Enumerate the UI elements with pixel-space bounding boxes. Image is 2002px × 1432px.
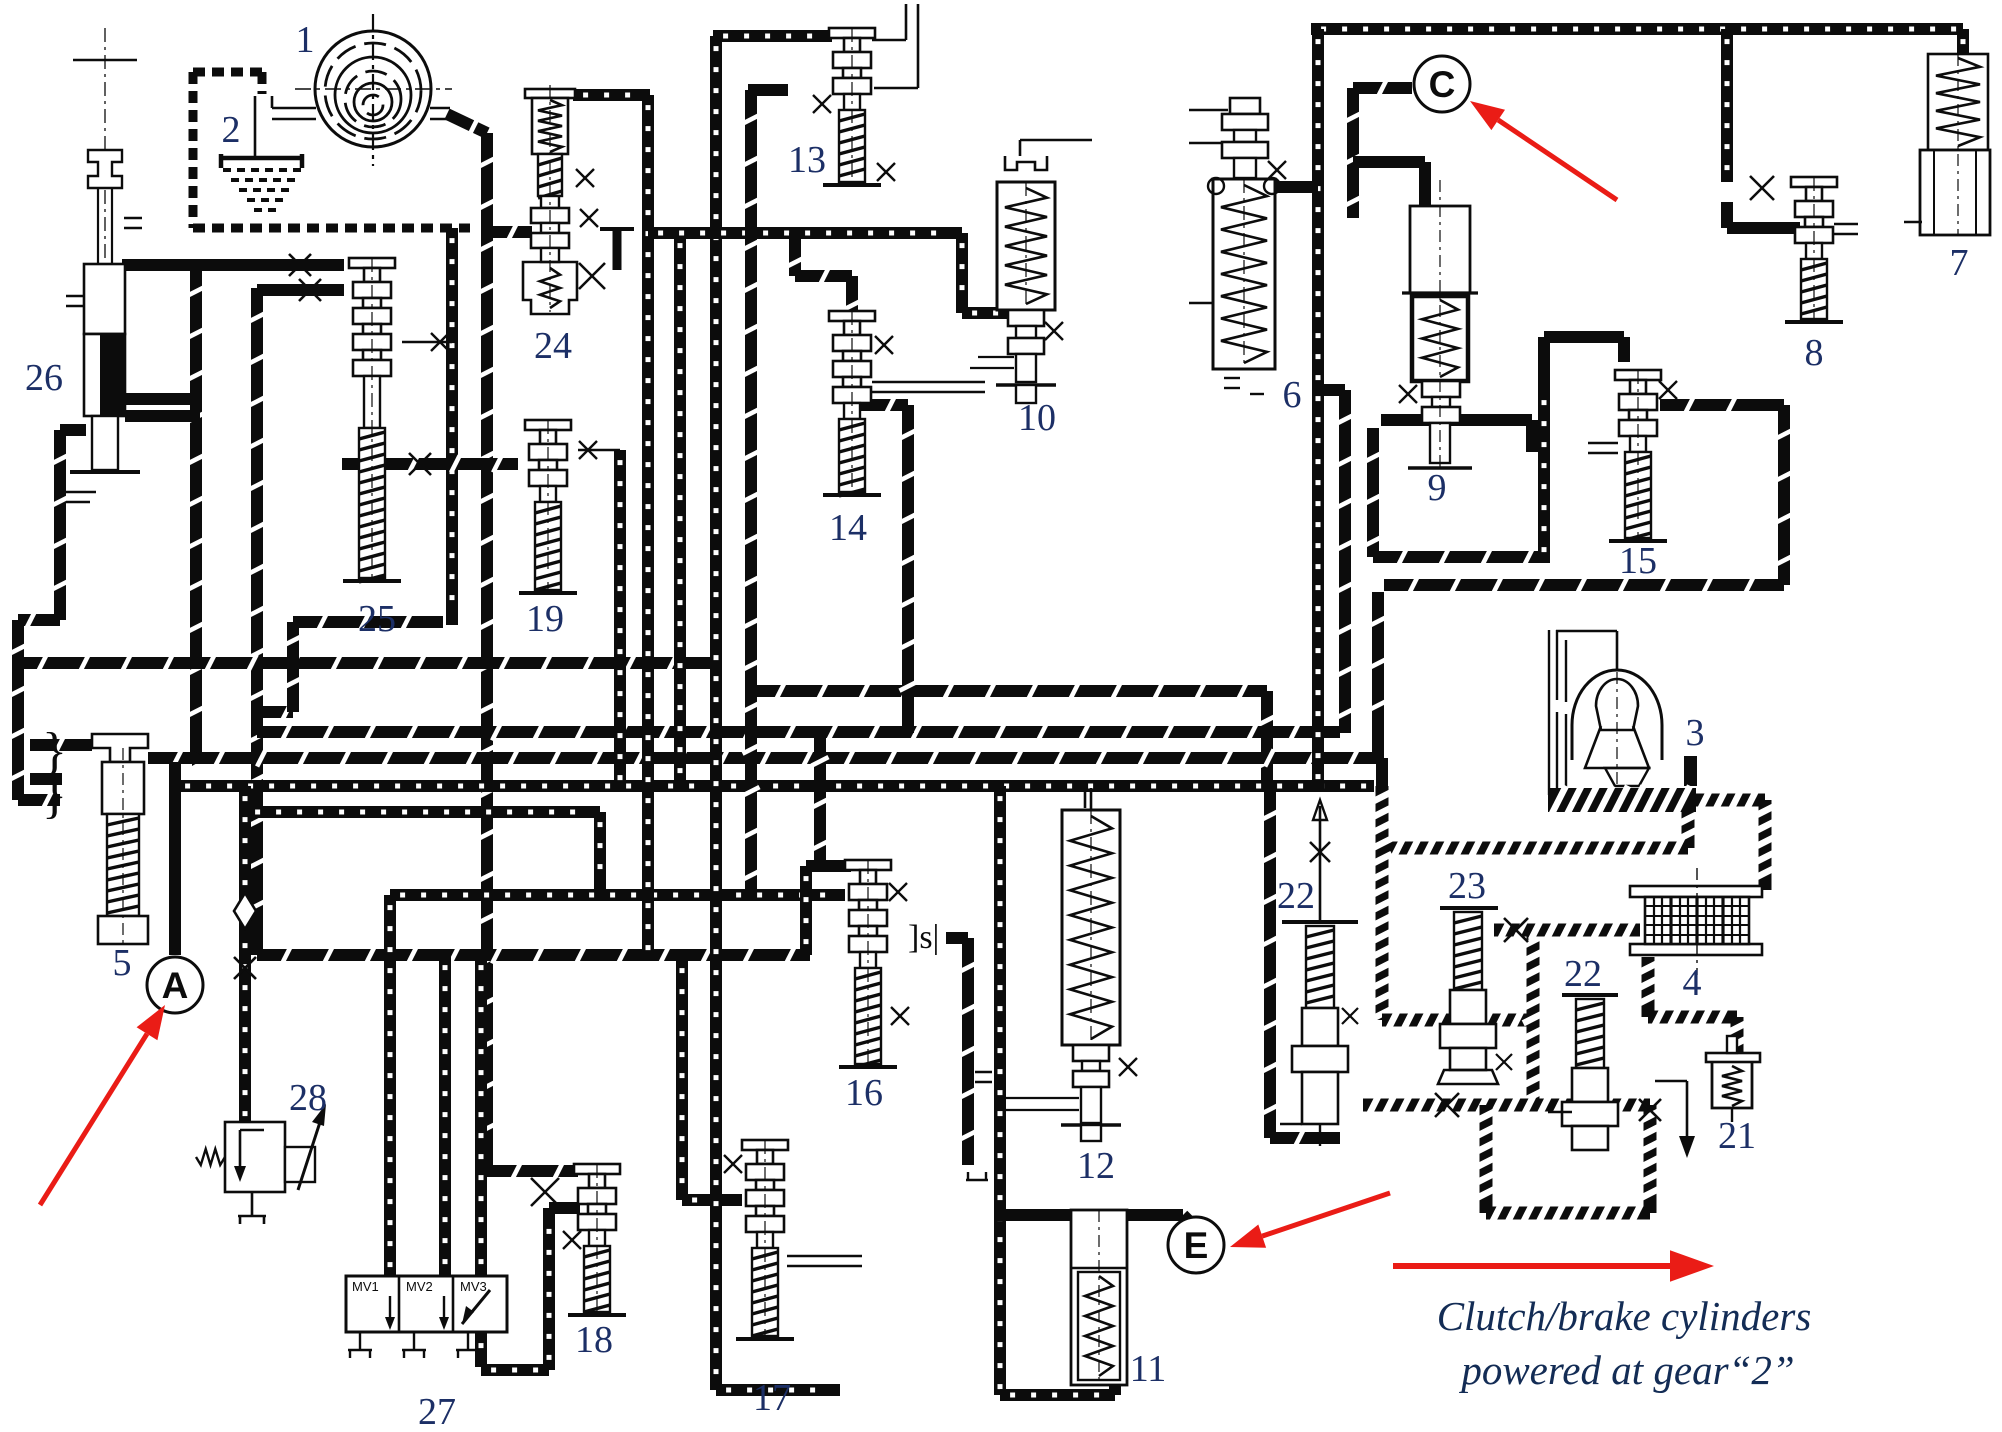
comp 11 <box>1071 1210 1127 1385</box>
wire 15 top feed <box>1538 337 1550 420</box>
svg-text:7: 7 <box>1950 242 1969 284</box>
wire dotted 24 top <box>573 89 650 101</box>
svg-text:21: 21 <box>1718 1115 1756 1157</box>
svg-text:MV3: MV3 <box>460 1279 487 1294</box>
wire 26 to 25 upper <box>122 259 344 271</box>
junction X at 18 <box>531 1178 559 1206</box>
wire trunk L7 dotted <box>245 806 600 818</box>
wire A riser <box>169 762 181 955</box>
wire MV1 feed <box>384 895 396 1276</box>
wire 22a stem <box>1319 806 1322 922</box>
svg-text:powered at gear“2”: powered at gear“2” <box>1458 1347 1794 1393</box>
junction X on 26-25 line <box>289 254 311 276</box>
wire 18 drain rise <box>543 1208 555 1370</box>
wire dotted y895 <box>390 889 845 901</box>
valve 17 side2 <box>787 1265 862 1268</box>
wire 25 to 19 line <box>342 458 518 470</box>
valve 23 <box>1440 906 1498 910</box>
svg-text:17: 17 <box>753 1377 791 1419</box>
wire 15 box bottom <box>1384 579 1784 591</box>
svg-text:19: 19 <box>526 598 564 640</box>
wire zebra x1533 <box>1527 930 1540 1105</box>
wire 8 lower link <box>1721 202 1733 228</box>
valve 8 side <box>1834 223 1858 226</box>
svg-text:14: 14 <box>829 507 867 549</box>
valve 15 <box>1615 370 1661 380</box>
valve 22b <box>1562 993 1618 997</box>
node E <box>1168 1217 1224 1273</box>
valve 18 <box>574 1164 620 1174</box>
node C <box>1414 56 1470 112</box>
wire comp6 to x1311 <box>1276 181 1318 193</box>
motor 3 <box>1549 630 1566 795</box>
valve 17 <box>742 1140 788 1150</box>
wire 14 bottom drop <box>861 399 908 411</box>
wire 26 to 25 lower <box>257 284 344 296</box>
actuator 26 <box>73 59 137 61</box>
wire x1340 drop <box>1318 384 1345 396</box>
wire 11 to E <box>1127 1209 1183 1221</box>
wire trunk L2a <box>13 657 716 669</box>
junction X on 25-19 line <box>409 453 431 475</box>
valve 16 <box>845 860 891 870</box>
wire trunk L3 <box>251 712 263 732</box>
wire pump pressure line <box>447 114 487 133</box>
svg-text:24: 24 <box>534 325 572 367</box>
valve 21 <box>1706 1053 1760 1062</box>
wire 9 top drop <box>1419 162 1431 206</box>
wire 9 box right dotted <box>1538 390 1550 563</box>
wire dotted x245 <box>239 786 251 1122</box>
junction X clutch line <box>1435 1093 1459 1117</box>
wire 25 to x452 <box>402 341 452 344</box>
svg-text:22: 22 <box>1277 875 1315 917</box>
comp 6 line a <box>1189 109 1228 112</box>
wire C stub <box>1353 82 1412 94</box>
wire 16 box right <box>946 932 968 944</box>
wire 15 box top <box>1660 399 1784 411</box>
svg-text:13: 13 <box>788 139 826 181</box>
wire 18 lower port <box>549 1202 580 1214</box>
comp 10 spool <box>1008 310 1044 326</box>
wire C riser <box>1347 88 1359 218</box>
svg-text:26: 26 <box>25 357 63 399</box>
node A <box>147 957 203 1013</box>
wire dotted x1311 <box>1312 29 1324 790</box>
svg-text:MV2: MV2 <box>406 1279 433 1294</box>
wire top dotted rect <box>1311 23 1963 35</box>
wire L4 end drop <box>1376 758 1388 790</box>
wire 13 top feed <box>713 30 832 42</box>
junction X at 8 <box>1750 176 1774 200</box>
wire dotted x445 <box>439 955 451 1276</box>
valve 15 side2 <box>1588 452 1618 455</box>
valve 17 side <box>787 1255 862 1258</box>
svg-text:]s|: ]s| <box>908 919 939 956</box>
comp 6 drain <box>1224 377 1240 379</box>
valve 8 <box>1791 177 1837 187</box>
wire tank stem right <box>271 96 274 108</box>
wire dashed enclosure bottom <box>193 224 470 233</box>
wire tank stem left <box>254 96 257 156</box>
comp 11 drain mark <box>966 1172 988 1180</box>
tank 2 <box>221 154 302 168</box>
comp 7 <box>1928 54 1988 150</box>
valve 28 <box>225 1122 285 1192</box>
svg-text:23: 23 <box>1448 865 1486 907</box>
comp 10 cylinder <box>997 182 1055 310</box>
wire zebra box bottom <box>1486 1207 1650 1220</box>
wire vertical from 26 area <box>251 288 263 955</box>
wire trunk L4 <box>148 752 1382 764</box>
svg-text:2: 2 <box>222 109 241 151</box>
valve 24 <box>525 89 575 98</box>
wire zebra clutch line <box>1363 1099 1650 1112</box>
wire dotted x620 <box>614 450 626 786</box>
junction X 22a stem <box>1310 842 1330 862</box>
red arrow gear2 <box>1393 1263 1670 1269</box>
wire 26 block out a <box>125 393 200 405</box>
wire 22a bottom link <box>1264 786 1276 1138</box>
svg-text:18: 18 <box>575 1319 613 1361</box>
valve 14 <box>829 311 875 321</box>
wire 11 top line <box>997 1209 1071 1221</box>
wire 9 box left <box>1367 428 1379 557</box>
svg-text:C: C <box>1429 64 1456 105</box>
junction X on x245 <box>234 957 256 979</box>
wire 26 block out b <box>125 410 200 422</box>
valve 15 side <box>1588 442 1618 445</box>
junction X box right <box>1639 1099 1661 1121</box>
wire dotted y233 <box>648 227 962 239</box>
wire x1378 link <box>1372 592 1384 758</box>
svg-text:E: E <box>1184 1225 1209 1266</box>
wire 14 side <box>872 381 985 384</box>
valve 5 <box>92 734 148 762</box>
arrowhead 22a stem <box>1313 800 1327 820</box>
comp 9 <box>1410 206 1470 293</box>
wire trunk L1 <box>293 616 443 628</box>
svg-text:15: 15 <box>1619 540 1657 582</box>
svg-text:A: A <box>162 965 189 1006</box>
svg-text:27: 27 <box>418 1391 456 1432</box>
comp 6 top <box>1230 98 1260 114</box>
wire zebra x1382 <box>1376 786 1389 1020</box>
wire trunk L6 dotted <box>175 780 1374 792</box>
wire 18 drain bottom <box>481 1364 549 1376</box>
comp 12 top link <box>1090 788 1093 810</box>
wire dotted drop from enclosure <box>446 228 458 625</box>
wire dotted x682 lower <box>676 958 688 1200</box>
svg-text:22: 22 <box>1564 953 1602 995</box>
wire 9 box top <box>1381 414 1532 426</box>
wire dotted x1727 <box>1721 29 1733 182</box>
wire zebra box right <box>1644 1105 1657 1213</box>
svg-text:Clutch/brake cylinders: Clutch/brake cylinders <box>1437 1293 1812 1339</box>
wire 9 feed <box>1353 156 1425 168</box>
valve 25 <box>349 258 395 268</box>
wire left border <box>60 424 86 436</box>
wire pump outlet a <box>430 107 450 110</box>
wire motor base zebra <box>1548 788 1696 812</box>
wire dotted x716 <box>710 36 722 1390</box>
valve 19 <box>525 420 571 430</box>
svg-text:9: 9 <box>1428 467 1447 509</box>
red arrow to C <box>1498 120 1617 200</box>
comp 10 cap <box>1005 156 1047 170</box>
wire trunk L3 main <box>257 726 1340 738</box>
junction arrow on L4 <box>192 750 206 766</box>
check valve diamond <box>234 893 256 929</box>
wire 16 feed horiz <box>806 860 851 872</box>
svg-text:1: 1 <box>296 19 315 61</box>
wire x751 top stub <box>748 84 788 96</box>
wire zebra filter feed <box>1494 924 1640 937</box>
svg-text:25: 25 <box>358 598 396 640</box>
svg-text:12: 12 <box>1077 1145 1115 1187</box>
svg-text:10: 10 <box>1018 397 1056 439</box>
wire valve18 feed <box>487 1165 578 1177</box>
wire tank to pump a <box>272 107 316 110</box>
junction X filter feed <box>1504 918 1528 942</box>
wire trunk L2b <box>751 685 1267 697</box>
wire dotted x1000 <box>994 786 1006 1395</box>
wire vertical x196 <box>190 262 202 753</box>
wire zebra motor right <box>1694 794 1765 807</box>
wire pump outlet b <box>430 118 450 121</box>
wire zebra box left <box>1480 1105 1493 1213</box>
wire dotted to 10 <box>956 233 968 313</box>
comp 12 spool <box>1073 1045 1109 1061</box>
drain arrow 21 <box>1655 1080 1687 1083</box>
wire dashed enclosure left <box>189 72 198 228</box>
wire dotted x677 <box>674 233 686 786</box>
wire pump to valve24 <box>483 226 532 238</box>
wire 14 feed <box>789 233 801 276</box>
comp 12 drain <box>1084 790 1087 808</box>
svg-text:11: 11 <box>1130 1348 1167 1390</box>
comp 10 drain <box>1019 140 1022 156</box>
wire 18 drain loop <box>475 955 487 1367</box>
wire 16 feed upper <box>814 732 826 866</box>
svg-text:4: 4 <box>1683 962 1702 1004</box>
wire 16 box left <box>800 866 812 955</box>
wire zebra 22b riser <box>1642 957 1655 1017</box>
comp 6 line c <box>1189 302 1213 305</box>
comp 12 cylinder <box>1062 810 1120 1045</box>
svg-text:16: 16 <box>845 1072 883 1114</box>
wire 13 drain a <box>872 39 906 42</box>
wire dashed enclosure top <box>193 68 262 77</box>
wire dotted x650 <box>642 95 654 958</box>
wire tank to pump b <box>272 118 316 121</box>
wire brace stub upper <box>30 739 92 751</box>
svg-text:}: } <box>42 767 67 824</box>
pump 1 <box>315 31 431 147</box>
svg-text:6: 6 <box>1283 374 1302 416</box>
wire zebra motor drop <box>1682 808 1695 848</box>
wire 19 to x620 <box>578 449 620 452</box>
svg-text:8: 8 <box>1805 332 1824 374</box>
svg-text:MV1: MV1 <box>352 1279 379 1294</box>
wire 13 drain b <box>874 87 918 90</box>
valve 13 <box>829 28 875 38</box>
valve 22a <box>1282 920 1358 924</box>
solenoid block 27 <box>346 1276 507 1332</box>
svg-text:28: 28 <box>289 1077 327 1119</box>
comp 6 line b <box>1189 142 1222 145</box>
valve 8 side2 <box>1834 233 1858 236</box>
svg-text:3: 3 <box>1686 712 1705 754</box>
wire 14 side2 <box>872 391 985 394</box>
wire hatched x751 <box>745 90 757 895</box>
red arrow to E <box>1262 1193 1390 1236</box>
comp 6 cylinder <box>1213 179 1275 369</box>
red arrow to A <box>40 1034 147 1205</box>
svg-text:5: 5 <box>113 942 132 984</box>
filter 4 <box>1630 886 1762 897</box>
wire brace stub lower <box>30 773 62 785</box>
junction X on lower line <box>299 279 321 301</box>
